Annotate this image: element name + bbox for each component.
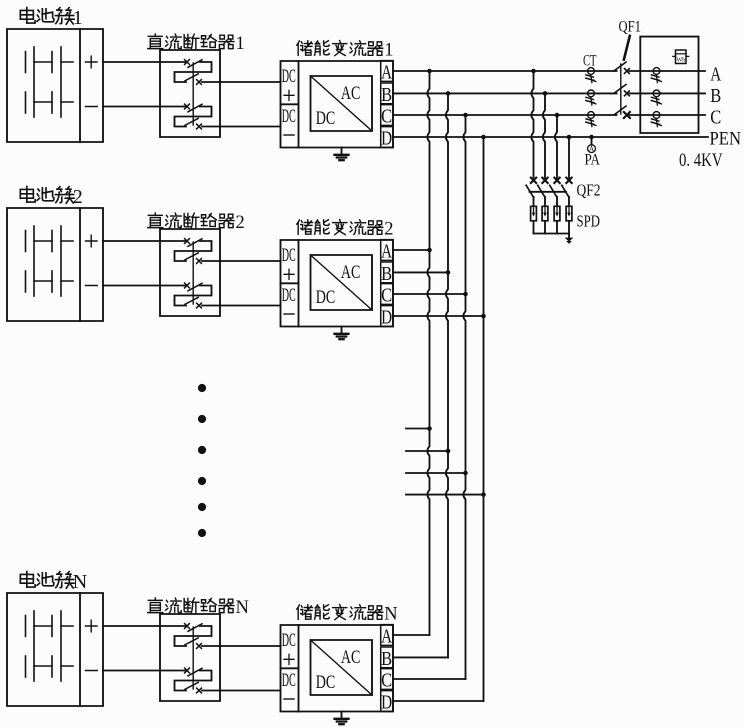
junction dot feeder B on bus B [446, 91, 451, 96]
junction dot PA tap on PEN [589, 135, 594, 140]
label 储能变流器2 [297, 219, 394, 239]
DC circuit breaker 2 (直流断路器2) two-pole [160, 229, 220, 316]
ellipsis dots for omitted battery clusters [198, 384, 206, 537]
wire phase A from QF1 through metering box [630, 70, 706, 72]
svg-text:QF1: QF1 [619, 19, 642, 36]
svg-text:DC: DC [282, 66, 296, 87]
svg-text:DC: DC [282, 670, 296, 691]
svg-text:PA: PA [585, 152, 601, 169]
wire converter2 C output to feeder [393, 292, 468, 297]
junction dot feeder C on bus C [463, 113, 468, 118]
svg-text:Wh: Wh [676, 58, 685, 64]
svg-text:N: N [384, 604, 397, 624]
wire converterN A output to feeder bottom [393, 634, 430, 636]
label 直流断路器2 [148, 213, 245, 233]
wire converterN B output to feeder bottom [393, 656, 448, 658]
wire stub of omitted converters (B) to feeder [406, 449, 450, 454]
svg-text:DC: DC [316, 108, 336, 129]
svg-text:C: C [381, 285, 392, 307]
wire battery1 + to DC breaker 1 [103, 61, 160, 63]
wire batteryN + to DC breaker N [103, 625, 160, 627]
ground arrow under SPD [565, 234, 574, 244]
wire PEN bus: converter1 D to right edge [393, 136, 708, 138]
wire SPD branch phase A drop from bus A [531, 69, 536, 178]
ground (earth) symbol under converter N [335, 712, 349, 725]
node label A [710, 64, 721, 86]
svg-text:D: D [381, 307, 392, 329]
wire phase C bus: converter1 C to QF1 [393, 114, 617, 116]
current transformer CT on phase B [586, 90, 596, 105]
current transformer CT on phase A [586, 68, 596, 83]
svg-text:D: D [381, 692, 392, 714]
svg-text:N: N [73, 571, 87, 593]
svg-text:B: B [381, 648, 392, 670]
svg-text:DC: DC [282, 630, 296, 651]
wire converter2 A output to feeder [393, 248, 432, 253]
label SPD [577, 212, 601, 231]
wire phase A bus: converter1 A to QF1 [393, 70, 617, 72]
wire battery2 + to DC breaker 2 [103, 240, 160, 242]
wire feeder B vertical (node B drop) with crossing hops [446, 93, 448, 657]
wire phase B bus: converter1 B to QF1 [393, 92, 617, 94]
breaker QF2 four-pole [526, 178, 572, 207]
wire SPD branch phase B drop from bus B [543, 91, 548, 178]
svg-text:C: C [381, 670, 392, 692]
surge protective devices SPD x4 [531, 206, 572, 233]
svg-text:CT: CT [583, 53, 597, 70]
wire batteryN - to DC breaker N [103, 670, 160, 672]
metering CT on phase C [651, 112, 661, 127]
breaker QF1 three-pole with operating rod [614, 36, 630, 118]
battery cluster 2 (电池簇2) box with cells [7, 208, 103, 321]
label 电池簇N [20, 571, 87, 593]
battery cluster 1 (电池簇1) box with cells [7, 29, 103, 142]
node label B [710, 85, 721, 107]
wire stub of omitted converters (D) to feeder [406, 492, 486, 497]
svg-text:A: A [381, 62, 392, 84]
svg-text:B: B [381, 263, 392, 285]
current transformer CT on phase C [586, 112, 596, 127]
label 直流断路器N [148, 598, 249, 618]
svg-text:DC: DC [282, 285, 296, 306]
DC circuit breaker 1 (直流断路器1) two-pole [160, 50, 220, 137]
DC circuit breaker N (直流断路器N) two-pole [160, 614, 220, 701]
svg-text:SPD: SPD [577, 212, 601, 231]
wire feeder A vertical (node A drop) with crossing hops [427, 71, 429, 635]
svg-text:N: N [236, 598, 249, 618]
energy storage converter 1 (储能变流器1) PCS box [281, 61, 394, 150]
svg-text:1: 1 [73, 7, 83, 29]
svg-text:2: 2 [236, 213, 245, 233]
metering CT on phase B [651, 90, 661, 105]
wire battery2 - to DC breaker 2 [103, 285, 160, 287]
junction dot feeder PEN on bus PEN [481, 135, 486, 140]
wire stub of omitted converters (C) to feeder [406, 471, 468, 476]
label CT [583, 53, 597, 70]
ground (earth) symbol under converter 1 [335, 148, 349, 161]
wire feeder PEN vertical (node PEN drop) [483, 137, 485, 701]
wire phase C from QF1 through metering box [630, 114, 706, 116]
node label PEN [710, 128, 742, 149]
label QF2 [577, 181, 601, 200]
wire DC breaker 2 out+ to converter 2 DC+ [220, 260, 281, 262]
svg-text:B: B [381, 84, 392, 106]
svg-text:AC: AC [341, 262, 361, 283]
svg-text:QF2: QF2 [577, 181, 601, 200]
svg-text:B: B [710, 85, 721, 107]
label 储能变流器1 [297, 40, 394, 60]
label 直流断路器1 [148, 34, 245, 54]
label 储能变流器N [297, 604, 398, 624]
label 电池簇2 [20, 186, 82, 208]
wire SPD branch phase C drop from bus C [555, 113, 560, 178]
wire converter2 D output to feeder [393, 314, 486, 319]
junction dot feeder A on bus A [427, 69, 432, 74]
svg-text:DC: DC [316, 672, 336, 693]
svg-text:DC: DC [282, 245, 296, 266]
wire feeder C vertical (node C drop) with crossing hops [463, 115, 465, 679]
wire DC breaker N out+ to converter N DC+ [220, 645, 281, 647]
energy meter Wh icon [673, 50, 689, 64]
svg-text:A: A [710, 64, 721, 86]
ground (earth) symbol under converter 2 [335, 327, 349, 340]
wire DC breaker 2 out- to converter 2 DC- [220, 305, 281, 307]
node label C [710, 106, 721, 128]
metering CT on phase A [651, 68, 661, 83]
svg-text:C: C [710, 106, 721, 128]
wire converterN D output to feeder bottom [393, 700, 484, 702]
svg-text:0. 4KV: 0. 4KV [679, 150, 723, 171]
wire phase B from QF1 through metering box [630, 92, 706, 94]
svg-text:DC: DC [316, 287, 336, 308]
svg-text:C: C [381, 106, 392, 128]
ammeter PA (circle A) [588, 137, 596, 153]
metering cabinet box [640, 37, 698, 133]
svg-text:PEN: PEN [710, 128, 742, 149]
label QF1 [619, 19, 642, 36]
svg-text:DC: DC [282, 106, 296, 127]
svg-text:A: A [381, 241, 392, 263]
wire DC breaker 1 out+ to converter 1 DC+ [220, 81, 281, 83]
svg-text:1: 1 [236, 34, 245, 54]
label 0.4KV [679, 150, 723, 171]
battery cluster N (电池簇N) box with cells [7, 593, 103, 706]
svg-text:A: A [381, 626, 392, 648]
svg-text:AC: AC [341, 647, 361, 668]
wire converterN C output to feeder bottom [393, 678, 466, 680]
wire battery1 - to DC breaker 1 [103, 106, 160, 108]
svg-text:2: 2 [73, 186, 83, 208]
wire DC breaker N out- to converter N DC- [220, 690, 281, 692]
svg-text:AC: AC [341, 83, 361, 104]
energy storage converter N (储能变流器N) PCS box [281, 625, 394, 714]
label PA [585, 152, 601, 169]
label 电池簇1 [20, 7, 82, 29]
wire converter2 B output to feeder [393, 270, 450, 275]
energy storage converter 2 (储能变流器2) PCS box [281, 240, 394, 329]
svg-text:1: 1 [384, 40, 393, 60]
wire stub of omitted converters (A) to feeder [406, 426, 432, 431]
svg-text:D: D [381, 128, 392, 150]
wire SPD common collector [534, 233, 570, 235]
wire DC breaker 1 out- to converter 1 DC- [220, 126, 281, 128]
wire SPD branch PEN drop from bus PEN [567, 135, 572, 178]
svg-text:2: 2 [384, 219, 393, 239]
